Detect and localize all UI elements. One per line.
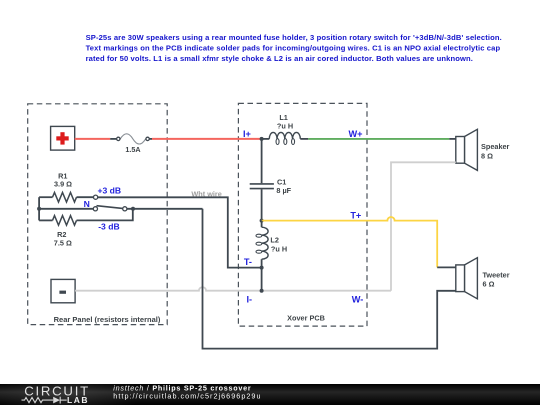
wire green W+ : L1 to speaker	[308, 138, 449, 140]
wire: T- to rear panel attenuator	[98, 197, 262, 267]
switch SW1 lever	[97, 206, 123, 209]
inductor L2	[256, 221, 268, 268]
svg-text:I-: I-	[246, 295, 252, 305]
negative terminal V-	[51, 279, 75, 302]
wire: stub to speaker +	[449, 138, 456, 140]
svg-text:Speaker: Speaker	[481, 142, 510, 151]
svg-text:I+: I+	[243, 129, 251, 139]
svg-text:http://circuitlab.com/c5r2j669: http://circuitlab.com/c5r2j6696p29u	[113, 391, 261, 400]
tweeter SPK2	[456, 258, 478, 299]
svg-text:SP-25s are 30W speakers using: SP-25s are 30W speakers using a rear mou…	[86, 33, 502, 42]
Rear Panel dashed box	[28, 104, 168, 325]
wire: switch common to tweeter return	[127, 208, 203, 210]
logo diode triangle	[53, 397, 60, 404]
svg-text:Rear Panel (resistors internal: Rear Panel (resistors internal)	[54, 315, 161, 324]
junction dot on left bus	[37, 207, 41, 211]
junction dot R2 bypass	[131, 207, 135, 211]
svg-text:?u H: ?u H	[271, 244, 287, 253]
wire: left bus of attenuator	[38, 197, 40, 220]
capacitor C1	[250, 139, 274, 221]
switch SW1 throw +3dB contact	[94, 195, 98, 199]
svg-text:T+: T+	[350, 210, 361, 220]
node I- junction dot	[260, 289, 264, 293]
node T+ junction dot	[260, 219, 264, 223]
positive terminal V+	[51, 126, 75, 150]
Xover PCB dashed box	[238, 103, 367, 326]
inductor L1	[262, 132, 309, 144]
node T- junction dot	[260, 266, 264, 270]
fuse F1 1.5A	[110, 134, 152, 154]
switch SW1 throw N contact	[93, 207, 97, 211]
wire yellow T+ : with hop over white wire	[262, 217, 438, 267]
resistor R1	[39, 192, 93, 202]
svg-text:LAB: LAB	[67, 395, 89, 405]
svg-text:Wht wire: Wht wire	[191, 189, 221, 198]
svg-text:8 µF: 8 µF	[276, 186, 291, 195]
svg-text:W-: W-	[352, 295, 364, 305]
footer bar	[0, 384, 540, 405]
wire: T- down to I-	[261, 268, 263, 291]
svg-text:rated for 50 volts. L1 is a sm: rated for 50 volts. L1 is a small xfmr s…	[86, 54, 473, 63]
wire: N row	[39, 208, 93, 210]
svg-text:W+: W+	[348, 129, 362, 139]
svg-text:N: N	[84, 199, 90, 209]
svg-text:?u H: ?u H	[277, 121, 293, 130]
svg-text:8 Ω: 8 Ω	[481, 151, 493, 160]
switch SW1 common contact	[123, 207, 127, 211]
wire: tweeter return (switch common down, along bottom, up to tweeter -)	[203, 209, 456, 349]
svg-text:Xover PCB: Xover PCB	[287, 313, 325, 322]
note text (circuit description)	[86, 33, 502, 63]
logo resistor squiggle and diode	[22, 397, 67, 404]
resistor R2	[39, 209, 133, 225]
svg-text:1.5A: 1.5A	[125, 145, 140, 154]
svg-text:3.9 Ω: 3.9 Ω	[54, 180, 72, 189]
svg-text:-3 dB: -3 dB	[98, 222, 119, 232]
wire white: speaker - to W- vertical	[391, 162, 456, 290]
wire white: - terminal to I- and W- (hop over tweeter return wire)	[75, 287, 391, 291]
svg-text:6 Ω: 6 Ω	[483, 280, 495, 289]
node I+ junction dot	[260, 137, 264, 141]
wire: stub to tweeter +	[437, 266, 456, 268]
svg-text:+3 dB: +3 dB	[98, 185, 122, 195]
svg-text:Tweeter: Tweeter	[483, 271, 510, 280]
speaker SPK1	[456, 129, 478, 170]
svg-text:Text markings on the PCB indic: Text markings on the PCB indicate solder…	[86, 44, 501, 53]
svg-text:T-: T-	[244, 257, 252, 267]
wire red: fuse to node I+	[152, 138, 262, 140]
svg-text:L2: L2	[270, 235, 279, 244]
svg-text:7.5 Ω: 7.5 Ω	[54, 238, 72, 247]
wire red: + terminal to fuse	[75, 138, 111, 140]
